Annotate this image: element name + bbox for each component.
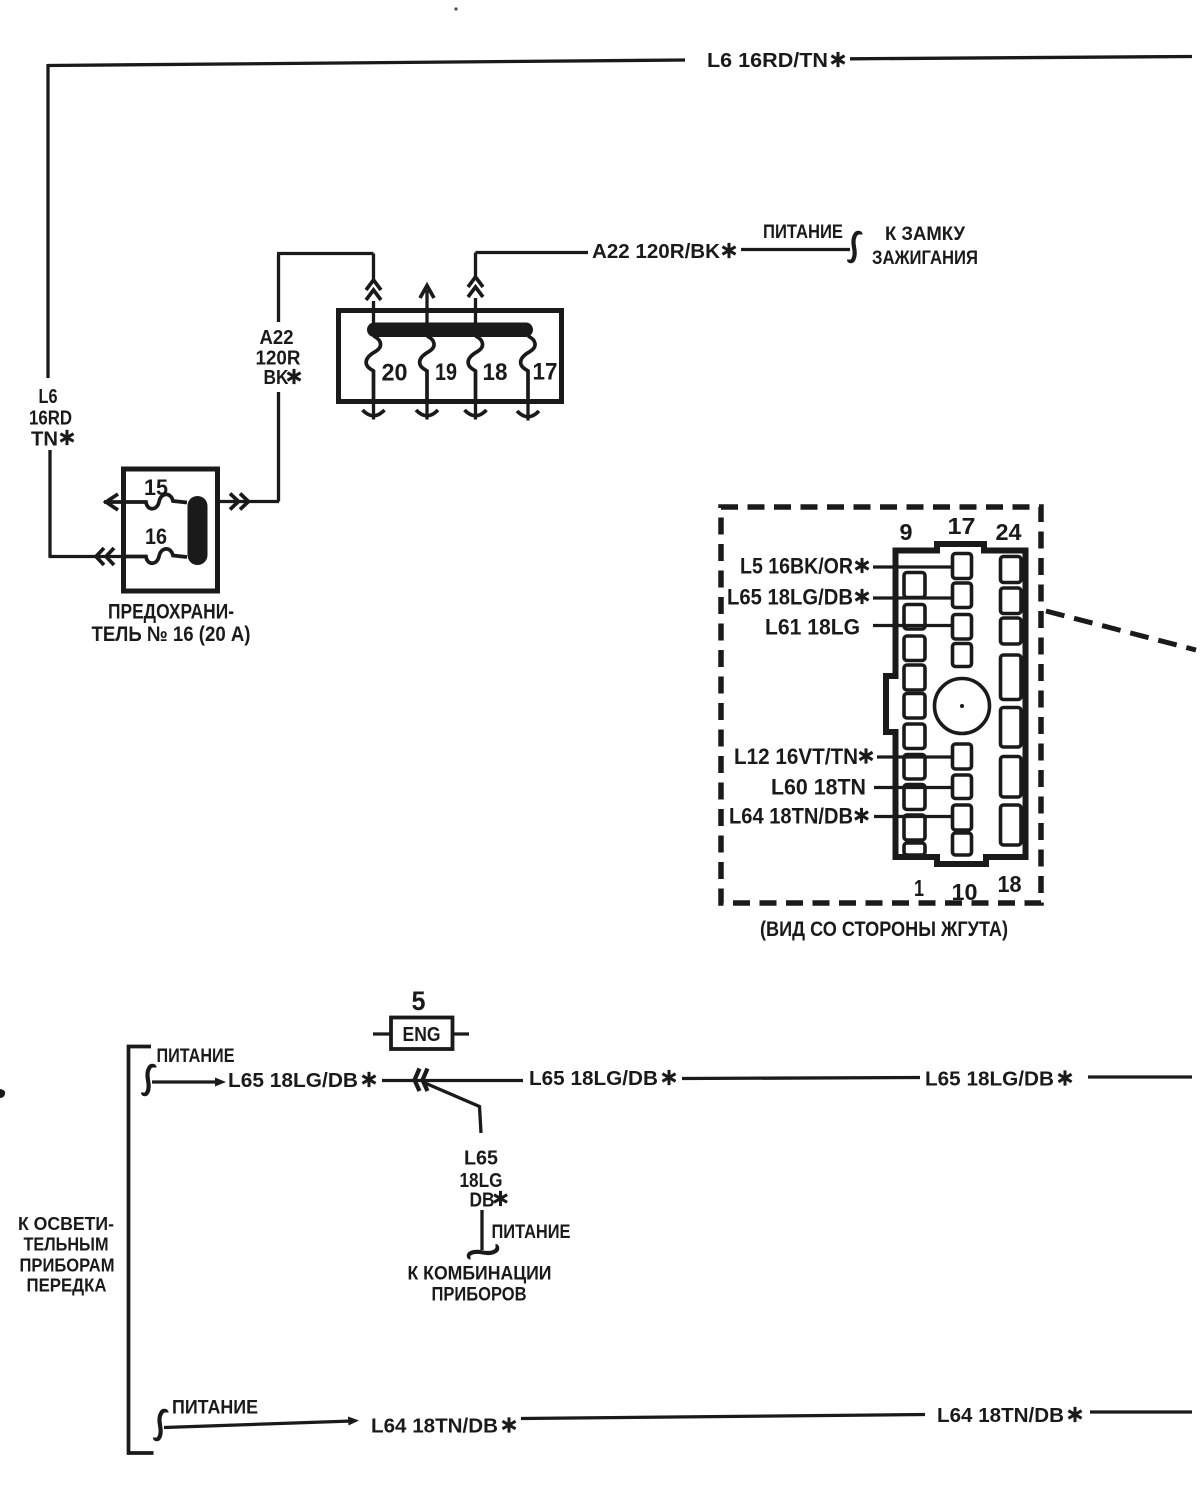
svg-text:L65 18LG/DB: L65 18LG/DB	[228, 1069, 358, 1092]
pin 19 up arrow	[425, 290, 428, 324]
wire L6 16RD/TN top horizontal right segment	[850, 57, 1192, 59]
wire L61 lead	[873, 624, 952, 627]
svg-text:10: 10	[952, 879, 978, 905]
wire fuse pin 15 to A22 riser	[218, 500, 279, 503]
fuse terminal wave pin 15	[126, 494, 187, 508]
svg-text:К ЗАМКУ: К ЗАМКУ	[885, 223, 966, 245]
fuse F16 body	[124, 469, 218, 591]
wire L64 left segment with arrow	[164, 1421, 352, 1428]
pin 19 wave	[420, 336, 434, 402]
arrow at fuse pin 15 left side	[104, 494, 123, 510]
svg-text:17: 17	[533, 359, 558, 386]
svg-text:1: 1	[914, 875, 924, 901]
scan speck top	[454, 7, 457, 10]
wire L5 lead	[873, 565, 952, 568]
svg-text:ПИТАНИЕ: ПИТАНИЕ	[157, 1045, 235, 1067]
pin 18 down arrow	[474, 402, 477, 420]
svg-text:L65 18LG/DB: L65 18LG/DB	[529, 1067, 658, 1090]
svg-text:9: 9	[900, 519, 913, 545]
svg-text:L64 18TN/DB: L64 18TN/DB	[371, 1415, 498, 1438]
pin 19 down arrow	[425, 402, 428, 420]
pin 17 down arrow	[526, 402, 529, 421]
svg-text:К КОМБИНАЦИИ: К КОМБИНАЦИИ	[408, 1263, 552, 1285]
connector C2 bus bar	[367, 323, 533, 338]
wire L65 lead	[873, 596, 952, 599]
dashed leader line to schematic	[1046, 611, 1196, 650]
wire L60 lead	[874, 786, 952, 789]
svg-text:5: 5	[412, 986, 426, 1016]
svg-text:L5 16BK/OR: L5 16BK/OR	[740, 554, 853, 579]
svg-text:L65 18LG/DB: L65 18LG/DB	[925, 1068, 1054, 1091]
wire branch diagonal to instrument cluster	[425, 1083, 481, 1133]
index hole circle	[935, 679, 990, 734]
svg-text:ЗАЖИГАНИЯ: ЗАЖИГАНИЯ	[872, 247, 978, 269]
svg-text:ТЕЛЬ № 16 (20 А): ТЕЛЬ № 16 (20 А)	[92, 623, 251, 646]
svg-text:20: 20	[382, 360, 408, 387]
connector U1 body outline	[886, 544, 1026, 864]
wire pin 18 riser with chevrons	[474, 253, 477, 279]
dashed detail box (connector view)	[721, 507, 1041, 903]
wire L65 right segment	[682, 1078, 920, 1079]
svg-text:L12 16VT/TN: L12 16VT/TN	[734, 744, 858, 769]
wire L64 far right segment	[1090, 1410, 1192, 1413]
svg-text:ПИТАНИЕ: ПИТАНИЕ	[172, 1397, 258, 1419]
wire drop into pin 20 with chevrons	[372, 254, 375, 282]
splice ENG stubs	[373, 1032, 469, 1035]
connector C2 body (pins 17-20)	[339, 311, 562, 402]
svg-text:ПИТАНИЕ: ПИТАНИЕ	[492, 1221, 571, 1243]
wire to ignition switch	[741, 248, 850, 251]
svg-text:ПЕРЕДКА: ПЕРЕДКА	[27, 1276, 107, 1296]
svg-text:A22 120R/BK: A22 120R/BK	[592, 240, 720, 263]
connector chevrons << at splice	[415, 1069, 428, 1092]
svg-text:К ОСВЕТИ-: К ОСВЕТИ-	[18, 1214, 114, 1234]
right pin column cavities	[1001, 557, 1022, 583]
left harness bracket	[129, 1047, 154, 1454]
svg-text:ПИТАНИЕ: ПИТАНИЕ	[763, 221, 843, 243]
svg-text:ТЕЛЬНЫМ: ТЕЛЬНЫМ	[24, 1235, 109, 1255]
svg-text:L64 18TN/DB: L64 18TN/DB	[937, 1404, 1064, 1427]
wire L65 far right segment	[1088, 1075, 1192, 1078]
svg-text:19: 19	[435, 359, 457, 386]
wire A22 top horizontal to pin 20	[277, 252, 374, 255]
left pin column cavities	[904, 573, 925, 598]
wire L65 left segment with arrow	[152, 1080, 215, 1083]
svg-text:L65 18LG/DB: L65 18LG/DB	[727, 585, 853, 610]
connector chevrons << at fuse pin 16	[96, 548, 114, 565]
wire from L6 drop to fuse pin 16	[49, 555, 125, 558]
svg-text:18: 18	[483, 359, 508, 386]
wire pin 18 to A22 120R/BK label	[476, 251, 589, 254]
fuse terminal wave pin 16	[126, 549, 187, 563]
svg-text:ПРИБОРАМ: ПРИБОРАМ	[20, 1256, 115, 1276]
wire-break squiggle (to ignition switch)	[849, 233, 861, 261]
svg-text:(ВИД СО СТОРОНЫ ЖГУТА): (ВИД СО СТОРОНЫ ЖГУТА)	[760, 917, 1008, 941]
middle pin column cavities	[953, 554, 972, 579]
svg-text:24: 24	[996, 519, 1022, 545]
svg-text:ПРИБОРОВ: ПРИБОРОВ	[432, 1284, 527, 1306]
wire L12 lead	[877, 755, 952, 758]
wire branch vertical lower	[480, 1210, 483, 1250]
wire-break squiggle (to instrument cluster)	[469, 1246, 497, 1258]
svg-text:18: 18	[998, 871, 1022, 897]
svg-text:L61 18LG: L61 18LG	[765, 615, 860, 640]
svg-text:L64 18TN/DB: L64 18TN/DB	[729, 804, 853, 829]
wire L65 to splice chevron	[382, 1079, 523, 1082]
wire-break squiggle (L65 feed)	[143, 1066, 155, 1094]
wire L64 middle segment	[521, 1415, 925, 1419]
pin 20 down arrow	[372, 402, 375, 420]
wire L6 16RD/TN top horizontal left segment	[48, 60, 685, 66]
connector chevrons >> on fuse 15 wire	[230, 494, 249, 510]
wire L6 vertical left drop	[48, 64, 50, 557]
splice ENG box	[391, 1018, 453, 1050]
svg-text:TN: TN	[31, 428, 58, 451]
pin 20 wave	[366, 336, 380, 402]
svg-text:16RD: 16RD	[29, 407, 72, 430]
wire A22 riser vertical	[277, 255, 280, 502]
svg-text:L60 18TN: L60 18TN	[771, 775, 866, 800]
wire-break squiggle (L64 feed)	[155, 1411, 167, 1439]
svg-text:DB: DB	[470, 1189, 495, 1212]
svg-text:ПРЕДОХРАНИ-: ПРЕДОХРАНИ-	[108, 601, 234, 624]
svg-text:16: 16	[145, 524, 167, 549]
svg-text:L6: L6	[39, 385, 58, 408]
svg-text:17: 17	[948, 513, 976, 539]
svg-text:L65: L65	[464, 1147, 498, 1170]
svg-text:BK: BK	[264, 366, 289, 389]
pin 18 wave	[468, 336, 482, 402]
fuse element (black capsule)	[188, 496, 208, 565]
wire L64 lead	[874, 815, 952, 818]
svg-text:ENG: ENG	[403, 1023, 441, 1046]
pin 17 wave	[521, 336, 535, 402]
scan blob left edge	[0, 1089, 5, 1098]
svg-text:L6 16RD/TN: L6 16RD/TN	[707, 49, 828, 72]
